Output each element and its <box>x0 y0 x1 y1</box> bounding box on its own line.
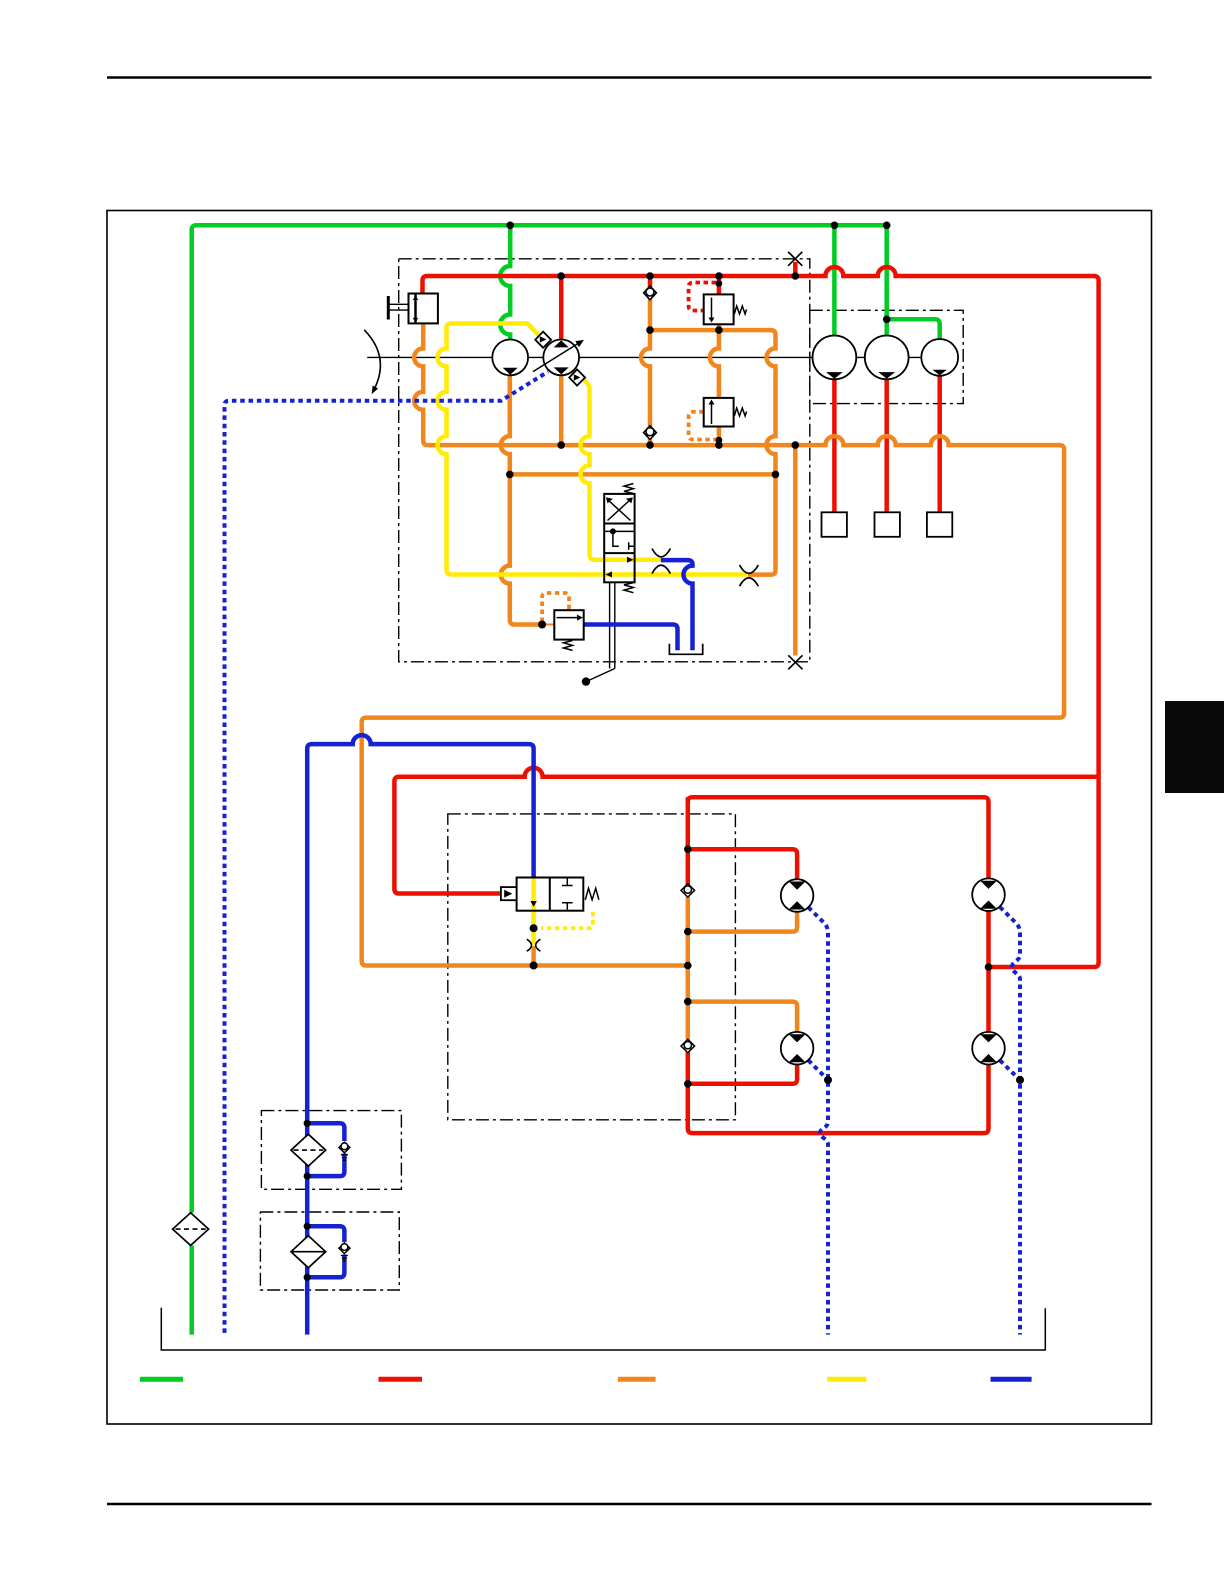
wire orange relief column <box>710 324 719 445</box>
tank symbol <box>669 644 702 655</box>
front wheel motor L2 <box>781 1032 814 1065</box>
wheel motor 1 <box>813 336 857 380</box>
enclosure pump assembly (dash-dot) <box>399 259 810 662</box>
pump port diamond A <box>535 332 551 348</box>
pilot line blue dotted servo control <box>225 372 549 1333</box>
wire yellow solenoid passage <box>531 878 536 945</box>
wire blue filter2 bypass <box>307 1226 344 1277</box>
enclosure lower valve assembly (dash-dot) <box>448 814 736 1120</box>
wire red left column upper <box>686 797 691 884</box>
wire orange case drain header <box>362 436 1064 965</box>
wheel motor 2 <box>865 336 909 380</box>
wire orange reducing valve stub <box>542 624 554 626</box>
test port X bottom <box>788 655 802 669</box>
solenoid valve (lower) <box>501 878 599 911</box>
servo cylinder (displacement control) <box>409 294 438 324</box>
wire orange to bottom X port <box>793 445 798 655</box>
wire orange motor L1 return <box>688 912 797 932</box>
front wheel motor L1 <box>781 879 814 912</box>
check valve CV2 <box>644 426 657 440</box>
pilot line orange dotted reducing valve <box>542 593 569 622</box>
filter 2 element <box>291 1236 326 1268</box>
lever ball <box>582 677 590 685</box>
wire red test port stub <box>793 262 798 276</box>
wire yellow pump port to valve <box>581 376 661 560</box>
variable displacement pump <box>533 340 584 376</box>
wire green charge pump inlet <box>500 225 510 339</box>
wire red motor L2 return <box>688 1065 797 1084</box>
pilot line red dotted relief 1 <box>689 283 716 311</box>
drain line blue dotted motor R2 <box>1000 1060 1018 1078</box>
relief valve RV1 <box>704 294 747 324</box>
wire orange check column 3 <box>686 897 691 1040</box>
input rotation arc arrow <box>364 330 380 391</box>
drive shaft line <box>367 356 958 358</box>
wire orange to reducing valve <box>501 474 542 624</box>
wire orange servo supply <box>414 323 428 445</box>
wire orange gallery y330 <box>650 330 776 574</box>
wire red front motor supply top <box>688 797 989 878</box>
pilot line orange dotted relief 2 <box>689 412 716 440</box>
wire red right column middle <box>986 911 991 1032</box>
front wheel motor R1 <box>972 878 1005 911</box>
legend swatches <box>140 1377 1032 1382</box>
wire blue reducing valve to tank <box>584 625 678 651</box>
drain line blue dotted motor L1 <box>808 907 828 1334</box>
wire red relief valve 1 stub <box>717 276 722 294</box>
orifice T2 <box>740 565 759 586</box>
drain line blue dotted motor R1 <box>1000 907 1020 1335</box>
check valve CV1 <box>644 286 657 300</box>
enclosure filter 2 (dash-dot) <box>260 1212 399 1290</box>
wire blue filter1 bypass <box>307 1123 344 1176</box>
wire green wheel motor 1 inlet <box>832 225 837 335</box>
suction strainer <box>173 1213 209 1246</box>
drain line blue dotted motor L2 <box>808 1060 826 1078</box>
wire orange charge gallery y474 <box>510 472 776 477</box>
check valve CV4 <box>681 1039 695 1052</box>
brake block 3 <box>927 512 952 537</box>
filter 1 element <box>291 1134 326 1166</box>
wire red main pump riser <box>559 276 564 340</box>
wire red lower supply <box>394 768 1098 889</box>
servo piston rod and T-bar <box>389 304 409 310</box>
relief valve RV2 <box>704 398 747 427</box>
enclosure filter 1 (dash-dot) <box>261 1111 401 1190</box>
wire red wheel motor 1 outlet <box>832 379 837 512</box>
pilot line yellow dotted solenoid <box>541 912 593 928</box>
wire blue through filters <box>305 1123 310 1334</box>
wire red wheel motor 2 outlet <box>884 379 889 512</box>
wire red left column lower <box>688 1052 989 1133</box>
wire red wheel motor 3 outlet <box>937 376 942 513</box>
wire blue pump case to tank header <box>307 735 533 1123</box>
test port X top <box>788 252 802 266</box>
reservoir bracket <box>161 1308 1045 1350</box>
check valve CV3 <box>681 884 695 897</box>
filter 1 bypass check <box>339 1142 350 1160</box>
wire red solenoid feed <box>394 889 501 894</box>
wire orange charge pump outlet <box>501 376 510 475</box>
spool valve (shuttle/bypass) <box>604 484 634 593</box>
wire green wheel motor 3 inlet <box>887 319 940 339</box>
wheel motor 3 <box>921 339 958 376</box>
wire orange motor L2 feed <box>688 1002 797 1032</box>
pump port diamond B <box>569 369 585 385</box>
wire green suction main <box>192 225 887 1213</box>
wire green wheel motor 2 inlet <box>884 225 889 335</box>
front wheel motor R2 <box>972 1032 1005 1065</box>
charge pump <box>492 340 528 376</box>
orifice T3 <box>527 939 541 951</box>
rotation arrowhead <box>372 386 379 395</box>
wire red motor L1 feed <box>688 849 797 879</box>
wire red charge pressure main <box>423 267 1099 967</box>
wire blue orifice to tank <box>661 560 693 650</box>
wire yellow valve gallery lower <box>452 572 747 577</box>
wire orange solenoid branch lower <box>531 946 536 966</box>
enclosure wheel motor group (dash-dot) <box>810 310 963 403</box>
orifice T1 <box>652 549 670 574</box>
filter 2 bypass check <box>339 1243 350 1261</box>
brake block 2 <box>875 512 900 537</box>
wire orange main pump drain <box>559 376 564 446</box>
spool valve stem and control lever <box>589 582 615 680</box>
wire orange check column 1 <box>641 298 650 445</box>
wire green suction below strainer <box>189 1245 194 1334</box>
valve body white fills (under pass-through wires) <box>604 494 634 582</box>
wire red check valve 1 stub <box>648 276 653 288</box>
wire yellow servo control left <box>438 324 540 575</box>
brake block 1 <box>822 512 847 537</box>
pressure reducing valve <box>554 610 583 650</box>
